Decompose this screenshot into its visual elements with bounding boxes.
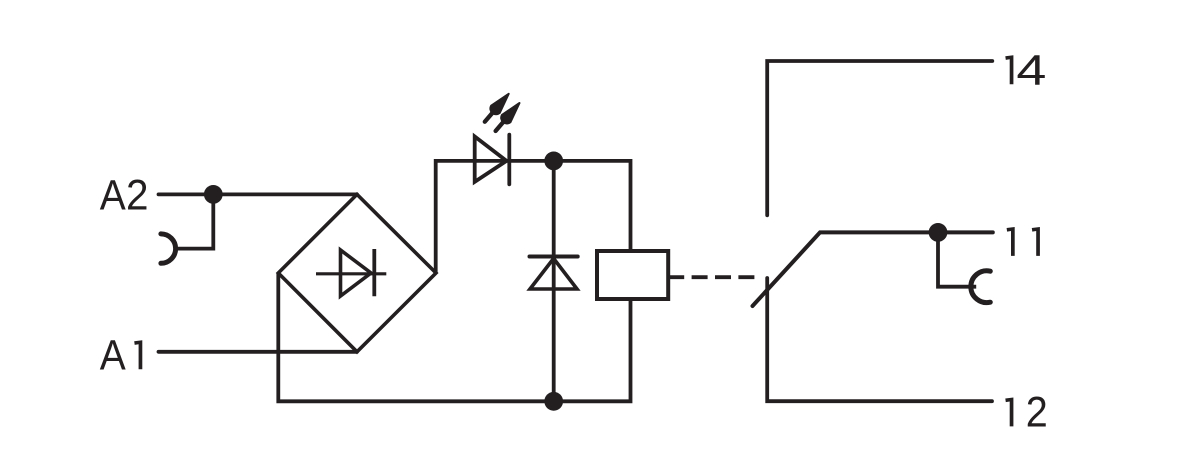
- svg-text:A: A: [100, 332, 126, 380]
- svg-text:2: 2: [1026, 389, 1048, 437]
- svg-text:4: 4: [1016, 47, 1046, 95]
- svg-text:2: 2: [126, 171, 149, 219]
- svg-text:A: A: [100, 171, 126, 219]
